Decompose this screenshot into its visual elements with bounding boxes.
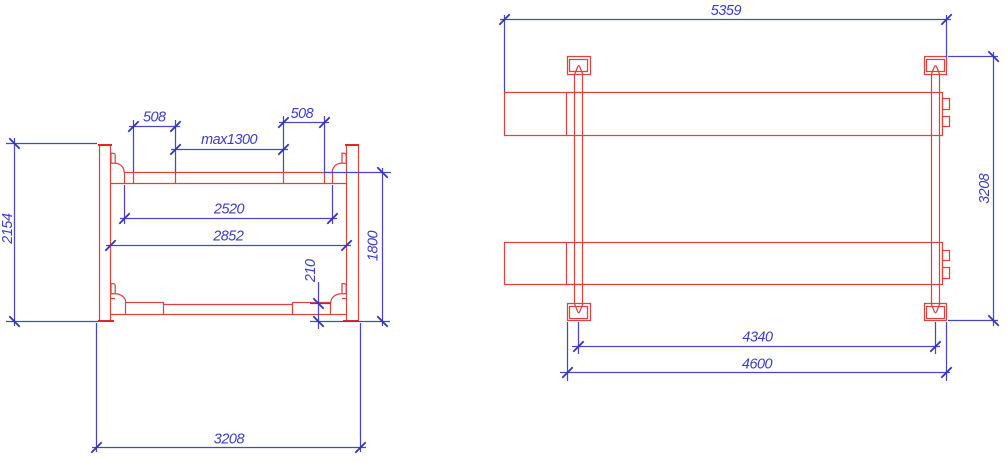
svg-text:4340: 4340 — [742, 329, 773, 345]
lower right latch tick — [342, 298, 346, 300]
lower runway ramp hinge — [566, 243, 568, 284]
upper right fillet arc — [332, 163, 341, 172]
upper runway end stops — [943, 99, 950, 127]
post plan bottom-left — [568, 304, 591, 321]
right post column — [347, 145, 359, 320]
upper crossbeam top edge — [124, 172, 332, 174]
svg-text:3208: 3208 — [214, 432, 245, 448]
lower right fillet arc — [331, 294, 342, 303]
lower left fillet arc — [115, 294, 126, 303]
svg-text:210: 210 — [303, 259, 319, 283]
dimension 2520 — [119, 185, 337, 224]
upper crossbeam left end plate — [124, 172, 126, 184]
dimension 3208 plan — [948, 51, 999, 326]
svg-text:max1300: max1300 — [201, 132, 257, 148]
svg-text:508: 508 — [143, 110, 166, 126]
lower right runway section — [293, 302, 332, 314]
dimension 2852 — [105, 229, 351, 251]
lower left latch tick — [111, 298, 115, 300]
dimension 1800 — [310, 167, 391, 326]
lower runway plan — [505, 243, 943, 285]
dimension 2154 — [0, 138, 98, 327]
dimension max1300 — [170, 116, 288, 172]
left post column — [100, 145, 111, 320]
post plan bottom-right — [925, 304, 947, 321]
svg-text:2520: 2520 — [213, 202, 245, 218]
svg-text:5359: 5359 — [711, 3, 742, 19]
svg-text:508: 508 — [291, 106, 314, 122]
right crossbeam plan — [931, 66, 939, 313]
dimension 210 — [303, 259, 331, 329]
dimension 3208 front — [91, 323, 366, 453]
right post base plate — [343, 320, 359, 322]
upper runway plan — [505, 93, 943, 136]
right post top cap — [345, 144, 359, 146]
left crossbeam plan — [575, 66, 583, 313]
svg-text:4600: 4600 — [742, 356, 773, 372]
upper left fillet arc — [115, 163, 124, 172]
dimension 4600 — [560, 322, 952, 381]
dimension 4340 — [572, 322, 941, 354]
svg-text:2852: 2852 — [212, 229, 244, 245]
upper right runway section — [284, 172, 325, 184]
lower left runway section — [126, 302, 165, 314]
upper left runway section — [134, 172, 176, 184]
dimension 508 left — [128, 110, 180, 173]
lower right slider tab — [342, 284, 346, 294]
lower left slider tab — [111, 284, 115, 294]
upper crossbeam bottom edge — [111, 183, 346, 185]
post plan top-left — [568, 57, 591, 75]
upper crossbeam right end plate — [332, 172, 334, 184]
lower runway end stops — [943, 251, 950, 279]
upper runway ramp hinge — [566, 92, 568, 135]
svg-text:1800: 1800 — [366, 230, 382, 261]
dimension 508 right — [278, 106, 329, 172]
upper left slider tab — [111, 153, 115, 163]
left post base plate — [98, 320, 114, 322]
dimension 5359 — [499, 3, 951, 92]
upper right slider tab — [342, 153, 346, 163]
left post top cap — [98, 144, 112, 146]
svg-text:2154: 2154 — [0, 213, 16, 245]
post plan top-right — [925, 57, 947, 75]
lower crossbeam bottom edge — [111, 314, 346, 316]
svg-text:3208: 3208 — [977, 173, 993, 204]
lower crossbeam mid top edge — [164, 304, 293, 306]
